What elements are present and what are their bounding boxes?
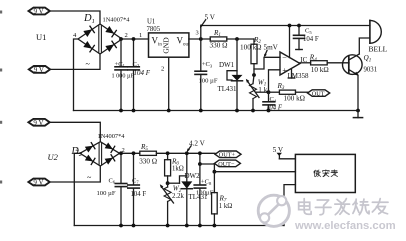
node dot 5V bbox=[199, 37, 203, 41]
svg-text:100 kΩ: 100 kΩ bbox=[284, 94, 306, 102]
svg-text:C5: C5 bbox=[305, 28, 312, 35]
scan mark left edge 2 bbox=[0, 69, 2, 72]
svg-text:~: ~ bbox=[86, 60, 91, 69]
node dot C7 at rail bbox=[132, 224, 136, 228]
wire 7805 GND to rail bbox=[168, 57, 170, 110]
resistor R6 1k vertical bbox=[165, 153, 184, 183]
svg-text:LM358: LM358 bbox=[288, 72, 310, 80]
svg-text:9031: 9031 bbox=[364, 66, 378, 73]
meter box (microammeter) bbox=[295, 154, 355, 192]
node dot V+ at 5V rail bbox=[288, 24, 292, 28]
diode D1d (bottom-right edge) bbox=[105, 41, 116, 52]
meter label text (microammeter) bbox=[314, 170, 338, 177]
svg-text:3: 3 bbox=[196, 30, 199, 37]
watermark logo circle bbox=[258, 195, 289, 226]
wire opamp plus input riser bbox=[269, 70, 281, 92]
svg-text:C7: C7 bbox=[132, 177, 139, 184]
node dot C3 at rail bbox=[199, 109, 203, 113]
svg-text:1 000 µF: 1 000 µF bbox=[112, 73, 135, 80]
svg-text:−: − bbox=[282, 53, 287, 62]
capacitor C2 104F bbox=[128, 39, 151, 111]
svg-text:C6: C6 bbox=[109, 177, 116, 184]
node dot R6 top bbox=[166, 151, 170, 155]
svg-text:Q1: Q1 bbox=[364, 54, 372, 63]
svg-text:104 F: 104 F bbox=[303, 36, 319, 43]
diode D2b (top-right edge) bbox=[105, 142, 115, 152]
node dot C1 at rail bbox=[119, 109, 123, 113]
label 5V with arrow bbox=[200, 14, 216, 29]
svg-text:9 V: 9 V bbox=[33, 119, 43, 127]
bell BELL bbox=[369, 20, 388, 53]
node dot C4 at rail bbox=[267, 109, 271, 113]
wire OUT- to C8 lead bbox=[200, 163, 215, 165]
terminal flag OUT bbox=[308, 90, 330, 98]
scan mark left edge 3 bbox=[0, 121, 2, 124]
node dot gnd at rail bbox=[167, 109, 171, 113]
capacitor C4 104F bbox=[263, 92, 283, 111]
svg-text:2.2k: 2.2k bbox=[172, 193, 184, 200]
node dot DW1 at rail bbox=[235, 109, 239, 113]
wire 9V#3 to bridge2 top bbox=[50, 122, 101, 141]
svg-text:100 kΩ: 100 kΩ bbox=[240, 43, 262, 51]
wire 9V#1 to bridge top bbox=[50, 11, 100, 24]
capacitor C1 1000uF bbox=[112, 39, 135, 111]
node dot C5 at 5V rail bbox=[297, 24, 301, 28]
label 5V (meter) with arrow bbox=[273, 146, 284, 159]
wire 9V#4 to bridge2 bottom (AC2) bbox=[50, 166, 101, 182]
svg-text:5 V: 5 V bbox=[205, 14, 216, 22]
transistor Q1 9031 bbox=[343, 54, 378, 76]
terminal flag OUT+ bbox=[215, 151, 241, 159]
label 4.2V with arrow bbox=[187, 139, 206, 152]
node dot +input node bbox=[267, 90, 271, 94]
node dot C2 top bbox=[132, 37, 136, 41]
diode bridge D2 outline bbox=[80, 142, 120, 166]
regulator U1 7805 bbox=[147, 19, 191, 58]
potentiometer W1 1k bbox=[246, 75, 268, 111]
op-amp U LM358 bbox=[280, 52, 309, 80]
terminal 9V #4 bbox=[28, 179, 49, 187]
wire 5V to meter pin1 bbox=[279, 158, 295, 160]
svg-text:5 V: 5 V bbox=[273, 146, 284, 154]
wire R1 to R2 top bbox=[227, 38, 254, 40]
svg-text:330 Ω: 330 Ω bbox=[139, 158, 157, 166]
node dot W2 at rail bbox=[166, 224, 170, 228]
node dot emitter at rail bbox=[356, 109, 360, 113]
svg-text:BELL: BELL bbox=[369, 45, 388, 54]
diode bridge D1 outline bbox=[78, 24, 122, 54]
node dot W1 at rail bbox=[251, 109, 255, 113]
node dot C8/OUT- junction bbox=[198, 162, 202, 166]
svg-text:GND: GND bbox=[162, 37, 171, 54]
node dot DW2 at rail bbox=[185, 224, 189, 228]
wire 9V#2 to bridge bottom (AC2) bbox=[50, 54, 100, 69]
svg-text:+C3: +C3 bbox=[202, 61, 213, 68]
svg-text:U1: U1 bbox=[36, 32, 46, 42]
terminal flag OUT- bbox=[214, 160, 240, 168]
diode D1c (bottom-left edge) bbox=[83, 41, 94, 52]
svg-text:330 Ω: 330 Ω bbox=[210, 41, 228, 49]
scan mark left edge 4 bbox=[0, 181, 2, 184]
svg-text:~: ~ bbox=[87, 173, 92, 182]
svg-text:TL431: TL431 bbox=[218, 85, 238, 93]
wire bridge left vertex to ground rail bbox=[74, 39, 79, 111]
svg-text:C4: C4 bbox=[270, 96, 277, 103]
ground stub below rail bbox=[353, 111, 362, 118]
shunt regulator DW1 TL431 bbox=[218, 39, 243, 111]
terminal 9V #1 bbox=[29, 8, 50, 16]
svg-text:2: 2 bbox=[161, 66, 164, 73]
capacitor C3 100uF bbox=[195, 39, 218, 111]
wire ref to DW2 bbox=[168, 182, 180, 184]
resistor R2 100k vertical bbox=[240, 36, 262, 75]
svg-text:1 kΩ: 1 kΩ bbox=[219, 203, 233, 210]
wire to meter pin2 bbox=[214, 171, 295, 173]
wire ground rail (bottom circuit) bbox=[74, 225, 284, 227]
scan mark left edge 1 bbox=[0, 11, 2, 14]
node dot C2 at rail bbox=[132, 109, 136, 113]
wire opamp V+ riser bbox=[289, 26, 291, 58]
svg-text:100 µF: 100 µF bbox=[97, 190, 116, 197]
svg-text:1N4007*4: 1N4007*4 bbox=[103, 17, 131, 24]
wire R5 to OUT+ (4.2V rail) bbox=[156, 152, 215, 154]
node dot R6/W2/ref junction bbox=[166, 181, 170, 185]
svg-text:C2: C2 bbox=[133, 61, 140, 68]
capacitor C5 104F bbox=[294, 26, 319, 50]
svg-text:9 V: 9 V bbox=[33, 179, 43, 187]
diode D1a (top-left edge) bbox=[83, 26, 94, 37]
diode D2c (bottom-left edge) bbox=[85, 154, 95, 164]
wire W1 wiper to +node bbox=[256, 91, 269, 93]
svg-text:5mV: 5mV bbox=[264, 43, 279, 51]
wire bridge2 left vertex to ground rail bbox=[74, 153, 80, 225]
svg-text:1N4007*4: 1N4007*4 bbox=[98, 133, 126, 140]
opamp V- ground stub bbox=[288, 70, 294, 79]
svg-text:104 F: 104 F bbox=[134, 69, 151, 77]
wire 7805 out bbox=[189, 38, 210, 40]
capacitor C7 104F bbox=[128, 153, 147, 225]
svg-text:1: 1 bbox=[139, 32, 142, 39]
svg-text:D1: D1 bbox=[83, 13, 95, 25]
svg-text:104 F: 104 F bbox=[131, 191, 147, 198]
svg-text:10 kΩ: 10 kΩ bbox=[311, 66, 329, 74]
svg-text:1kΩ: 1kΩ bbox=[172, 166, 184, 173]
node dot DW2 top bbox=[185, 151, 189, 155]
shunt regulator DW2 TL431 bbox=[180, 153, 209, 225]
watermark text elecfans chinese bbox=[299, 199, 388, 215]
resistor R1 330ohm bbox=[210, 29, 228, 50]
node dot bridge right vertex bbox=[119, 37, 123, 41]
node dot R7 top junction bbox=[213, 170, 217, 174]
wire ground rail (top circuit) bbox=[74, 110, 360, 112]
svg-text:2: 2 bbox=[125, 32, 128, 39]
svg-text:U2: U2 bbox=[48, 152, 59, 162]
svg-text:OUT−: OUT− bbox=[218, 161, 235, 168]
terminal 9V #3 bbox=[28, 119, 49, 127]
resistor R3 100k bbox=[269, 82, 308, 103]
svg-text:7805: 7805 bbox=[147, 26, 161, 33]
wire bridge + output to 7805 bbox=[122, 38, 149, 40]
svg-text:100 µF: 100 µF bbox=[199, 77, 218, 84]
diode D2d (bottom-right edge) bbox=[105, 155, 115, 165]
svg-text:4: 4 bbox=[73, 32, 77, 39]
resistor R7 1k vertical bbox=[212, 172, 233, 226]
resistor R4 10k bbox=[300, 53, 349, 73]
node dot R2/W1 junction bbox=[252, 73, 256, 77]
node dot C7 top bbox=[132, 151, 136, 155]
capacitor C8 100uF bbox=[194, 153, 213, 225]
resistor R5 330ohm bbox=[139, 143, 157, 166]
label 5mV with arrow bbox=[264, 43, 279, 57]
svg-text:U1: U1 bbox=[147, 19, 155, 26]
svg-text:9 V: 9 V bbox=[34, 66, 44, 74]
svg-text:+C1: +C1 bbox=[115, 61, 126, 68]
wire opamp minus input bbox=[254, 57, 280, 69]
capacitor C6 100uF bbox=[97, 153, 127, 225]
svg-text:9 V: 9 V bbox=[34, 8, 44, 16]
svg-text:www.elecfans.com: www.elecfans.com bbox=[294, 220, 396, 232]
diode D2a (top-left edge) bbox=[85, 143, 95, 153]
terminal 9V #2 bbox=[29, 66, 50, 74]
wire OUT- down to R7 node bbox=[213, 164, 215, 172]
svg-text:+C8: +C8 bbox=[201, 178, 212, 185]
node dot C8 at rail bbox=[198, 224, 202, 228]
node dot R7 at rail bbox=[213, 224, 217, 228]
svg-text:OUT+: OUT+ bbox=[219, 152, 236, 159]
potentiometer W2 2.2k bbox=[160, 183, 185, 225]
svg-text:DW1: DW1 bbox=[219, 61, 235, 69]
wire riser to 5V rail bbox=[201, 26, 370, 40]
node dot C8 top bbox=[198, 151, 202, 155]
wire bridge2 + output to R5 bbox=[120, 152, 140, 154]
wire collector to bell bbox=[359, 38, 370, 54]
wire emitter to rail bbox=[357, 75, 359, 110]
wire rail up to meter pin3 bbox=[284, 185, 295, 226]
svg-text:Vout: Vout bbox=[177, 36, 191, 48]
node dot DW1 top bbox=[235, 37, 239, 41]
node dot C6 top bbox=[119, 151, 123, 155]
node dot C6 at rail bbox=[119, 224, 123, 228]
diode D1b (top-right edge) bbox=[105, 26, 116, 37]
svg-text:OUT: OUT bbox=[312, 90, 325, 97]
